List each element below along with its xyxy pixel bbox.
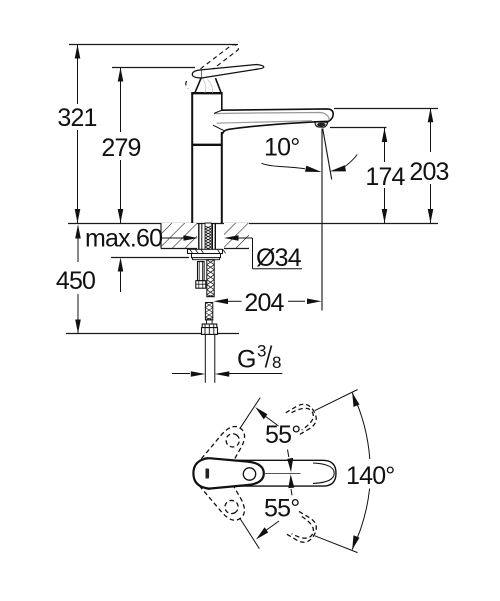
- svg-text:max.60: max.60: [85, 225, 162, 253]
- svg-text:55°: 55°: [264, 495, 299, 523]
- svg-text:Ø34: Ø34: [256, 244, 302, 272]
- dimension G3/8 arrows: [172, 371, 282, 377]
- svg-text:204: 204: [244, 289, 284, 317]
- ref line 203 upper extent: [334, 108, 438, 110]
- countertop hatched section right: [224, 223, 249, 249]
- spout rotated up 30 (dashed end arc): [286, 400, 321, 435]
- hose end ref line (450 lower extent): [66, 333, 239, 335]
- label G 3/8: [237, 342, 281, 374]
- hose end nut: [202, 324, 218, 334]
- handle rotated down 55 (dashed): [187, 452, 252, 527]
- dimension 204: [214, 299, 322, 305]
- radial line lower 55: [240, 518, 260, 549]
- svg-text:174: 174: [365, 163, 405, 191]
- mounting flange and nut under counter: [188, 249, 226, 259]
- G3/8 connection tube: [205, 334, 215, 382]
- handle rotated up 55 (dashed): [188, 420, 253, 495]
- radial line to 140 arc bottom: [315, 536, 358, 553]
- svg-text:279: 279: [101, 134, 140, 162]
- flexible braided hose upper: [207, 260, 214, 297]
- 10 deg angle arc arrows: [262, 155, 358, 173]
- radial line to 140 arc top: [315, 390, 358, 411]
- aerator: [315, 122, 328, 127]
- dimension 450 line: [75, 225, 81, 334]
- ref line 279 upper extent: [112, 67, 195, 69]
- flexible braided hose lower: [205, 303, 212, 325]
- handle pivot circle: [243, 468, 255, 480]
- 55 upper dimension arrow at centerline: [287, 450, 293, 473]
- 55 lower dimension arrow at centerline: [288, 474, 294, 495]
- ref line top (321 upper extent): [69, 44, 238, 46]
- 140 swivel arc: [352, 393, 370, 550]
- water stream vertical line: [321, 129, 323, 311]
- countertop hatched section left: [161, 223, 197, 249]
- svg-text:3: 3: [257, 342, 266, 361]
- spout rotated down 30 (dashed end arc): [286, 511, 321, 546]
- spout stadium solid (top view): [194, 460, 336, 486]
- lower 55 arc arrow + leader: [256, 521, 279, 540]
- svg-text:55°: 55°: [265, 421, 300, 449]
- radial line upper 55: [240, 398, 261, 429]
- dimension 279 line: [118, 68, 124, 224]
- dimension 203 line: [428, 108, 434, 223]
- svg-text:G: G: [237, 346, 256, 374]
- handle indicator tick: [206, 469, 210, 479]
- threaded mounting stud and nut: [196, 262, 206, 289]
- spout: [213, 109, 333, 134]
- svg-text:450: 450: [56, 267, 95, 295]
- dimension 321 line: [75, 45, 81, 224]
- mounting shank through countertop: [199, 223, 216, 250]
- svg-text:8: 8: [272, 353, 281, 372]
- svg-text:140°: 140°: [346, 462, 395, 490]
- countertop surface line: [68, 223, 438, 225]
- max.60 leader arrow to hole: [161, 235, 198, 241]
- svg-text:203: 203: [409, 158, 448, 186]
- dimension 174 line: [382, 128, 388, 223]
- lever handle raised (dashed): [186, 45, 239, 89]
- svg-text:321: 321: [57, 104, 96, 132]
- max.60 depth ref line: [111, 257, 189, 259]
- Ø34 leader arrow: [224, 235, 302, 269]
- water stream 10 deg line: [323, 129, 332, 180]
- upper 55 arc arrow + leader: [255, 407, 278, 426]
- centerline: [265, 473, 301, 475]
- faucet body column: [191, 93, 222, 223]
- svg-text:10°: 10°: [264, 134, 299, 162]
- cartridge dome: [195, 78, 221, 93]
- lever handle solid: [192, 65, 264, 79]
- ref line 174 upper extent: [330, 127, 387, 129]
- handle solid (top view): [193, 458, 263, 488]
- dimension max.60 arrows: [118, 258, 124, 293]
